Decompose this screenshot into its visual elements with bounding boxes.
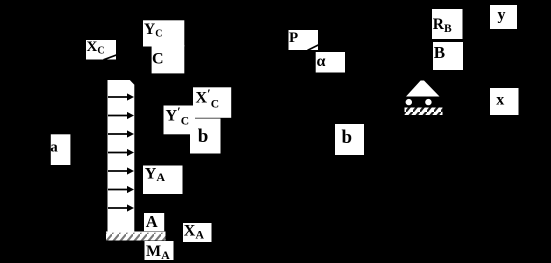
svg-text:b: b [198, 126, 209, 147]
svg-text:A: A [146, 212, 158, 231]
svg-text:x: x [496, 92, 504, 109]
svg-text:y: y [498, 7, 506, 24]
svg-text:P: P [289, 30, 298, 46]
svg-text:B: B [434, 43, 445, 62]
svg-text:a: a [50, 140, 58, 156]
svg-text:C: C [152, 51, 164, 68]
svg-text:b: b [342, 127, 353, 148]
svg-text:α: α [317, 53, 326, 70]
